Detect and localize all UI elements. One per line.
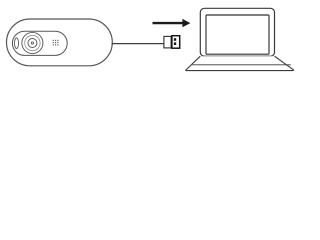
cable [112,43,164,45]
laptop screen inner [206,15,269,54]
laptop base [186,56,294,70]
usb metal shell [172,36,180,49]
usb plug body [164,36,171,48]
lens outer ring [22,32,43,53]
arrow [153,19,191,27]
laptop front edge line [192,64,290,66]
lens inner ring [28,39,37,48]
lens side oval [15,38,19,49]
webcam faceplate [12,31,67,55]
lens center dot [31,42,33,44]
webcam body [7,19,113,66]
mic grille dots [53,40,59,46]
laptop screen outer [200,8,274,56]
lens middle ring [25,35,40,50]
usb contact hole bottom [174,42,176,45]
usb contact hole top [174,38,176,41]
